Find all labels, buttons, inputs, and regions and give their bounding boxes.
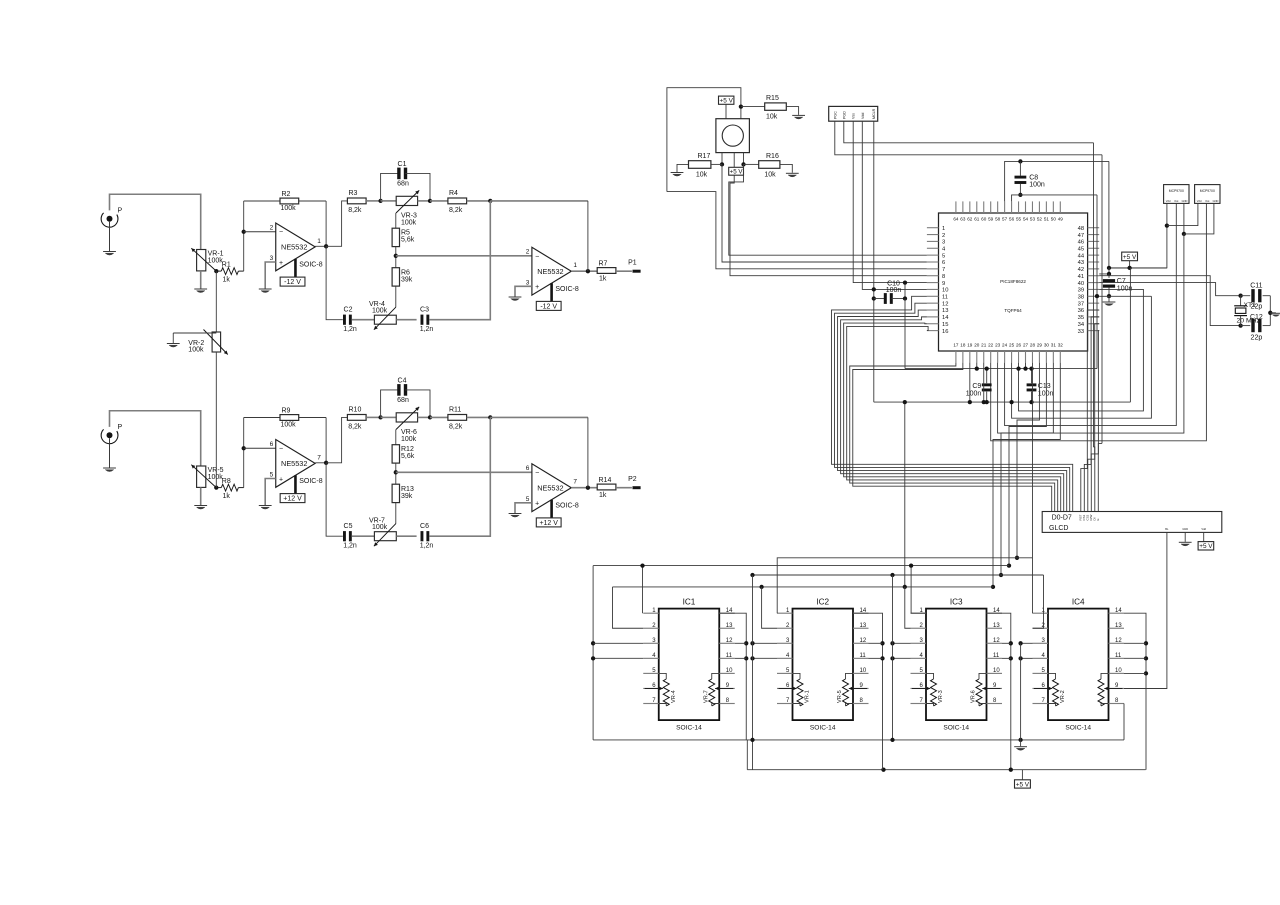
wire PIC pin15 data bus D4 <box>844 323 1061 511</box>
svg-text:68n: 68n <box>397 397 409 404</box>
IC2 pin 13 stub <box>853 627 869 629</box>
svg-text:15: 15 <box>942 322 948 328</box>
svg-text:VR-4: VR-4 <box>671 690 677 703</box>
IC4 pin 8 stub <box>1109 703 1125 705</box>
rail R4 (shared) <box>613 586 994 588</box>
svg-text:24: 24 <box>1002 343 1008 348</box>
node A <box>378 415 382 419</box>
svg-text:53: 53 <box>1030 217 1036 222</box>
microcontroller U5 PIC18F8622 TQFP64 <box>939 213 1088 351</box>
wire feedback to op-amp output <box>325 201 327 246</box>
wire MCP Vdd net <box>1166 203 1168 268</box>
svg-text:29: 29 <box>1037 343 1043 348</box>
wire jack to ground <box>109 438 111 467</box>
node C <box>488 415 492 419</box>
IC1 pin 8 stub <box>719 703 735 705</box>
IC4 pin14 rail <box>1124 613 1146 770</box>
capacitor C11 22p <box>1241 295 1251 297</box>
capacitor C9 100n <box>986 369 988 384</box>
node op-amp1 output <box>315 245 326 247</box>
svg-text:+12 V: +12 V <box>283 496 302 503</box>
ground at op-amp + input <box>259 288 272 290</box>
svg-text:100k: 100k <box>401 219 417 226</box>
ground rail below PIC <box>874 401 1131 403</box>
IC1 pin 7 stub <box>643 703 659 705</box>
wire C10 right to pin9 net <box>904 283 906 299</box>
wire PIC pin17 data bus D6 <box>850 363 1055 512</box>
IC1 pin4 wire <box>593 657 643 659</box>
resistor R10 8,2k <box>347 415 366 421</box>
wire +5V rail to pin41 <box>1099 268 1109 274</box>
IC3 pin 4 stub <box>911 657 927 659</box>
wire PIC pin30 to pot ICs rail <box>1009 363 1046 566</box>
svg-text:11: 11 <box>860 653 867 659</box>
node B <box>428 199 432 203</box>
resistor R17 10k <box>677 164 689 172</box>
wire PIC pin29 to pot ICs rail <box>1017 363 1039 558</box>
potentiometer VR-3 100k <box>381 200 397 202</box>
wire pin19 to ground rail <box>969 363 971 403</box>
PIC left pin stubs 1-16 <box>927 227 939 229</box>
resistor R5 5,6k <box>392 228 399 246</box>
svg-text:100k: 100k <box>401 436 417 443</box>
IC4 pin 2 stub <box>1033 627 1049 629</box>
svg-text:-12 V: -12 V <box>540 303 557 310</box>
capacitor C7 100n <box>1108 274 1110 278</box>
wire encoder switch loop to PIC pin7 <box>667 192 927 269</box>
svg-text:61: 61 <box>974 217 980 222</box>
svg-text:5: 5 <box>942 253 945 259</box>
svg-text:8,2k: 8,2k <box>348 423 362 430</box>
resistor R11 8,2k <box>430 416 448 418</box>
svg-text:2: 2 <box>526 249 530 256</box>
svg-text:1k: 1k <box>223 493 231 500</box>
wire PIC pin14 data bus D3 <box>841 317 1064 512</box>
svg-text:48: 48 <box>1078 226 1084 232</box>
node op-amp1 output <box>315 462 326 464</box>
svg-text:+5 V: +5 V <box>1123 254 1137 261</box>
wire R4 to IC1 pin2 <box>613 587 644 628</box>
IC1 pin 6 stub <box>643 687 659 689</box>
temperature sensor MCP9700 sensor 2 <box>1195 185 1220 204</box>
rail R3 (shared) <box>753 574 1044 576</box>
capacitor C10 100n <box>874 298 885 300</box>
wire PIC pin31 to pot ICs rail <box>1001 363 1053 575</box>
svg-text:12: 12 <box>993 638 1000 644</box>
svg-text:C5: C5 <box>344 523 353 530</box>
svg-text:R7: R7 <box>599 260 608 267</box>
svg-text:12: 12 <box>860 638 867 644</box>
svg-text:+5 V: +5 V <box>720 98 734 105</box>
IC4 pin 13 stub <box>1109 627 1125 629</box>
svg-text:R17: R17 <box>698 153 711 160</box>
svg-text:MCP9700: MCP9700 <box>1200 189 1215 193</box>
svg-text:+5 V: +5 V <box>1199 543 1213 550</box>
svg-text:49: 49 <box>1058 217 1064 222</box>
ground below GLCD <box>1184 532 1186 541</box>
IC4 pin 1 stub <box>1033 612 1049 614</box>
svg-text:47: 47 <box>1078 233 1084 239</box>
svg-text:+: + <box>279 260 283 267</box>
svg-text:19: 19 <box>967 343 973 348</box>
svg-text:10: 10 <box>1115 668 1122 674</box>
IC3 pin 10 stub <box>987 672 1003 674</box>
node A junction <box>720 162 724 166</box>
wire pin39 loop to pin26 <box>1019 289 1144 410</box>
svg-text:100k: 100k <box>372 524 388 531</box>
svg-text:1,2n: 1,2n <box>420 543 434 550</box>
wire MCP GND net <box>1183 203 1185 234</box>
capacitor C13 100n <box>1031 369 1033 384</box>
+5 V supply box (PIC) <box>1122 252 1138 261</box>
IC1 pin 13 stub <box>719 627 735 629</box>
wire VR-6 wiper to R12 <box>395 430 397 445</box>
wire output to filter <box>326 417 347 462</box>
svg-text:3: 3 <box>942 240 945 246</box>
svg-text:2: 2 <box>942 233 945 239</box>
node mid divider <box>394 470 398 474</box>
svg-text:VR-6: VR-6 <box>971 690 977 703</box>
svg-text:45: 45 <box>1078 246 1084 252</box>
IC1 pin 10 stub <box>719 672 735 674</box>
svg-text:P2: P2 <box>628 476 637 483</box>
svg-text:C9: C9 <box>972 383 981 390</box>
potentiometer VR-1 100k <box>200 250 202 271</box>
svg-text:10k: 10k <box>766 114 778 121</box>
wire pin57 net (y161) <box>1005 161 1109 201</box>
svg-text:100n: 100n <box>886 287 902 294</box>
svg-text:11: 11 <box>942 295 948 301</box>
wire MCP2 Out to pin22 loop <box>991 203 1207 440</box>
ground below jack <box>103 467 116 469</box>
IC2 pin 4 stub <box>777 657 793 659</box>
IC1 pin11 wire <box>735 657 747 659</box>
input jack P (channel 1) <box>101 213 118 227</box>
IC2 pin 11 stub <box>853 657 869 659</box>
svg-text:39: 39 <box>1078 288 1084 294</box>
ground at crystal <box>1270 312 1280 314</box>
svg-text:R14: R14 <box>599 477 612 484</box>
wire output feedback <box>587 201 589 271</box>
capacitor C5 1,2n <box>343 531 346 541</box>
wire pin56 net (y195) <box>1012 195 1097 202</box>
svg-text:C4: C4 <box>398 378 407 385</box>
svg-text:R4: R4 <box>449 190 458 197</box>
svg-text:BL: BL <box>1165 527 1169 531</box>
encoder pin C wire <box>733 153 735 168</box>
svg-text:6: 6 <box>526 465 530 472</box>
select rail S2 <box>642 566 644 614</box>
IC3 pin4 wire <box>893 657 911 659</box>
svg-text:37: 37 <box>1078 301 1084 307</box>
svg-text:C6: C6 <box>420 523 429 530</box>
wire +5V mid to PIC pin8 <box>730 175 927 276</box>
svg-text:IC3: IC3 <box>950 597 963 606</box>
output terminal P2 <box>633 486 641 489</box>
svg-text:VR-1: VR-1 <box>805 690 811 703</box>
svg-text:100k: 100k <box>188 347 204 354</box>
node B <box>428 415 432 419</box>
svg-text:IC4: IC4 <box>1072 597 1085 606</box>
svg-text:11: 11 <box>993 653 1000 659</box>
resistor R7 1k <box>597 268 616 274</box>
ground right of R16 <box>786 172 799 174</box>
capacitor C2 1,2n <box>343 315 346 325</box>
svg-text:Vss: Vss <box>852 113 856 119</box>
wire header Vss to pin9 <box>853 121 927 282</box>
svg-text:−: − <box>279 229 283 236</box>
svg-text:23: 23 <box>995 343 1001 348</box>
svg-text:35: 35 <box>1078 315 1084 321</box>
wire output down to cap row <box>326 246 343 319</box>
svg-text:C11: C11 <box>1250 283 1262 290</box>
PIC bottom pin stubs 17-32 <box>955 351 957 363</box>
svg-text:SOIC-8: SOIC-8 <box>555 286 578 293</box>
IC4 internal pot VR-2 <box>1048 673 1056 679</box>
IC1 pin 11 stub <box>719 657 735 659</box>
svg-text:E: E <box>1096 518 1100 520</box>
svg-text:GND: GND <box>1182 527 1188 531</box>
svg-text:100k: 100k <box>372 307 388 314</box>
select rail S1 <box>777 558 1032 613</box>
wire PIC pin13 data bus D2 <box>838 310 1067 511</box>
wire + input to ground <box>515 503 532 513</box>
IC3 pin 14 stub <box>987 612 1003 614</box>
wire rail up right side <box>1129 268 1131 402</box>
svg-text:10: 10 <box>726 668 733 674</box>
potentiometer VR-7 100k <box>374 532 396 541</box>
capacitor C4 68n <box>381 390 400 418</box>
IC3 pin 3 stub <box>911 642 927 644</box>
svg-text:1: 1 <box>942 226 945 232</box>
IC2 pin4 wire <box>753 657 778 659</box>
wire MCP GND down to pin23 loop <box>998 234 1184 433</box>
IC3 pin 9 stub <box>987 687 1003 689</box>
wire PGD vertical right side <box>1093 143 1095 447</box>
IC3 internal pot VR-3 <box>926 673 934 679</box>
wire R13 to lower pot <box>395 503 397 524</box>
svg-text:39k: 39k <box>401 493 413 500</box>
svg-text:12: 12 <box>726 638 733 644</box>
wire pin56 net vertical <box>1096 195 1098 369</box>
svg-text:Vdd: Vdd <box>1166 199 1171 203</box>
wire pin20 to rail <box>976 363 978 369</box>
svg-text:VR-1: VR-1 <box>208 250 224 257</box>
IC1 pin 12 stub <box>719 642 735 644</box>
svg-text:5: 5 <box>270 472 274 479</box>
resistor R3 8,2k <box>347 198 366 204</box>
svg-text:+5 V: +5 V <box>1016 781 1030 788</box>
svg-text:VR-7: VR-7 <box>703 690 709 703</box>
svg-text:5,6k: 5,6k <box>401 453 415 460</box>
svg-text:C12: C12 <box>1250 314 1263 321</box>
svg-text:26: 26 <box>1016 343 1022 348</box>
svg-text:+5 V: +5 V <box>730 169 744 176</box>
wire + input to ground <box>515 286 532 296</box>
ground bus bottom rail <box>593 739 1124 741</box>
ground at VR-2 <box>167 343 180 345</box>
svg-text:59: 59 <box>988 217 994 222</box>
IC3 internal pot VR-6 <box>979 673 987 679</box>
svg-text:7: 7 <box>573 479 577 486</box>
IC4 pin12 wire <box>1124 642 1146 644</box>
svg-text:34: 34 <box>1078 322 1085 328</box>
wire VR-5 to ground <box>200 487 202 505</box>
+5 V supply box (bottom) <box>1015 780 1031 788</box>
IC3 pin 5 stub <box>911 672 927 674</box>
ground left of R17 <box>671 172 684 174</box>
svg-text:8,2k: 8,2k <box>449 423 463 430</box>
svg-text:GLCD: GLCD <box>1049 525 1068 532</box>
IC2 pin 7 stub <box>777 703 793 705</box>
svg-text:R1: R1 <box>222 261 231 268</box>
ground below C7 <box>1103 301 1116 303</box>
ground at op-amp + input <box>259 505 272 507</box>
svg-text:1,2n: 1,2n <box>343 326 357 333</box>
wire jack to VR top <box>110 411 201 466</box>
node wiper junction <box>214 269 218 273</box>
svg-text:58: 58 <box>995 217 1001 222</box>
svg-text:13: 13 <box>860 623 867 629</box>
IC1 internal pot VR-4 <box>659 673 667 679</box>
op-amp U2A NE5532 (first stage ch2) <box>276 440 315 488</box>
IC1 digital potentiometer SOIC-14 <box>659 609 720 721</box>
wire header PGC <box>835 121 1102 155</box>
op-amp U1A NE5532 (first stage ch1) <box>276 223 315 271</box>
svg-text:8,2k: 8,2k <box>449 207 463 214</box>
svg-text:Out: Out <box>1205 199 1209 203</box>
wire crystal caps to ground <box>1269 296 1271 326</box>
PIC top pin stubs 64-49 <box>1059 201 1061 213</box>
svg-text:33: 33 <box>1078 329 1084 335</box>
svg-text:12: 12 <box>942 301 948 307</box>
svg-text:7: 7 <box>942 267 945 273</box>
IC4 pin 7 stub <box>1033 703 1049 705</box>
svg-text:SOIC-8: SOIC-8 <box>299 478 322 485</box>
IC1 pin12 wire <box>735 642 747 644</box>
wire output to filter <box>326 201 347 246</box>
IC2 internal pot VR-5 <box>846 673 854 679</box>
svg-text:MCLR: MCLR <box>872 108 876 119</box>
IC4 pin 14 stub <box>1109 612 1125 614</box>
ground at op-amp2 + input <box>509 513 522 515</box>
resistor R4 8,2k <box>430 200 448 202</box>
svg-text:1,2n: 1,2n <box>343 543 357 550</box>
svg-text:14: 14 <box>942 315 949 321</box>
IC1 pin 2 stub <box>643 627 659 629</box>
IC3 pin 8 stub <box>987 703 1003 705</box>
svg-text:1: 1 <box>317 238 321 245</box>
svg-text:Vdd: Vdd <box>861 113 865 119</box>
IC3 pin 6 stub <box>911 687 927 689</box>
svg-text:13: 13 <box>942 308 948 314</box>
op-amp U2B NE5532 (second stage ch2) <box>532 464 571 512</box>
IC4 pin3 wire <box>1021 642 1033 644</box>
svg-text:100k: 100k <box>281 205 297 212</box>
svg-text:100k: 100k <box>281 421 297 428</box>
IC1 pin 4 stub <box>643 657 659 659</box>
svg-text:C2: C2 <box>344 306 353 313</box>
wire encoder B to PIC pin5 <box>729 164 927 255</box>
wire PGC vertical right side <box>1101 155 1103 444</box>
IC2 internal pot VR-1 <box>793 673 801 679</box>
power rail below PIC <box>905 368 1097 370</box>
wire divider to op-amp2 inverting input <box>396 471 532 473</box>
svg-text:NE5532: NE5532 <box>537 483 563 492</box>
resistor R8 1k <box>216 487 221 489</box>
svg-text:13: 13 <box>1115 623 1122 629</box>
svg-text:50: 50 <box>1051 217 1057 222</box>
svg-text:68n: 68n <box>397 180 409 187</box>
svg-text:PGC: PGC <box>833 111 837 119</box>
IC4 pin11 wire <box>1124 657 1146 659</box>
IC1 pin 1 stub <box>643 612 659 614</box>
resistor R15 10k <box>741 106 765 108</box>
svg-text:TQFP64: TQFP64 <box>1004 308 1022 313</box>
svg-text:100n: 100n <box>1038 390 1054 397</box>
resistor R12 5,6k <box>392 445 399 463</box>
svg-text:NE5532: NE5532 <box>537 267 563 276</box>
svg-text:1k: 1k <box>599 276 607 283</box>
IC2 pin 5 stub <box>777 672 793 674</box>
svg-text:VR-3: VR-3 <box>938 690 944 703</box>
svg-text:VR-5: VR-5 <box>837 690 843 703</box>
svg-text:R11: R11 <box>449 407 461 414</box>
ground at op-amp2 + input <box>509 296 522 298</box>
node C <box>488 199 492 203</box>
IC3 pin12 wire <box>1002 642 1011 644</box>
wire R4 to IC3 pin2 <box>905 587 911 628</box>
svg-text:22p: 22p <box>1251 304 1263 311</box>
wire PIC pin11 data bus D0 <box>832 296 1073 511</box>
IC3 pin3 wire <box>893 642 911 644</box>
svg-text:11: 11 <box>726 653 733 659</box>
IC1 pin 5 stub <box>643 672 659 674</box>
wire ground rail to R4 rail <box>904 402 906 587</box>
IC4 pin 9 stub <box>1109 687 1125 689</box>
svg-text:22: 22 <box>988 343 994 348</box>
svg-text:17: 17 <box>953 343 959 348</box>
svg-text:MCP9700: MCP9700 <box>1169 189 1184 193</box>
svg-text:PGD: PGD <box>842 111 846 119</box>
svg-text:−: − <box>535 470 539 477</box>
IC2 pin14 rail <box>853 613 883 770</box>
svg-text:SOIC-14: SOIC-14 <box>1065 724 1091 731</box>
svg-text:27: 27 <box>1023 343 1029 348</box>
svg-text:VR-5: VR-5 <box>208 467 224 474</box>
wire PIC pin34 to GLCD control <box>1088 324 1099 512</box>
ground symbol bottom <box>1018 738 1022 742</box>
wire PGD to GLCD control <box>1094 447 1095 512</box>
+5 V supply box (GLCD) <box>1203 532 1205 541</box>
svg-text:56: 56 <box>1009 217 1015 222</box>
IC3 pin11 wire <box>1002 657 1011 659</box>
wire jack to VR top <box>110 194 201 249</box>
capacitor C3 1,2n <box>421 315 424 325</box>
capacitor C6 1,2n <box>421 531 424 541</box>
encoder pin A wire <box>721 153 723 165</box>
svg-text:10: 10 <box>993 668 1000 674</box>
svg-text:39k: 39k <box>401 276 413 283</box>
svg-text:SOIC-14: SOIC-14 <box>810 724 836 731</box>
node output stage <box>571 487 597 489</box>
wire PIC pin16 data bus D5 <box>847 326 1058 511</box>
svg-text:18: 18 <box>960 343 966 348</box>
ICSP header connector <box>829 106 878 121</box>
resistor R9 100k (feedback) <box>244 417 280 419</box>
IC1 pin 9 stub <box>719 687 735 689</box>
svg-text:Out: Out <box>1174 199 1178 203</box>
